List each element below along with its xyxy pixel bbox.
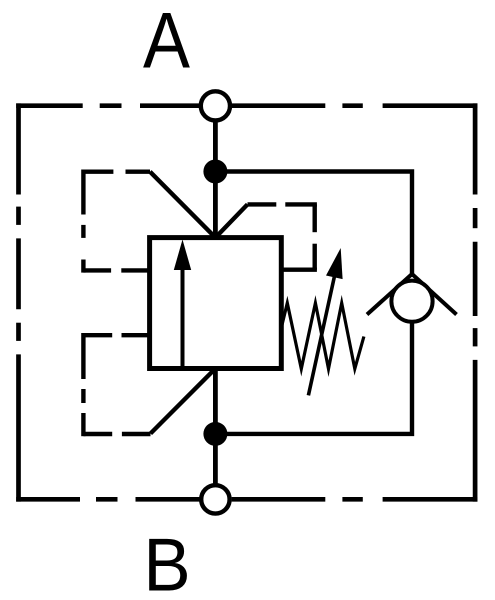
wire upper node to check valve inlet bbox=[215, 172, 412, 278]
port B bbox=[201, 485, 229, 513]
wire valve outlet to port B bbox=[213, 367, 218, 485]
flow arrow in valve body bbox=[174, 240, 191, 368]
port A bbox=[201, 91, 230, 120]
junction node lower bbox=[203, 422, 227, 446]
enclosure boundary top edge bbox=[16, 103, 477, 108]
pilot box lower left bbox=[83, 333, 150, 436]
spring (adjustable) bbox=[282, 303, 364, 369]
pilot diagonal upper right bbox=[215, 204, 247, 237]
enclosure boundary left edge bbox=[16, 103, 21, 501]
pilot diagonal upper left bbox=[150, 172, 215, 238]
spring adjustment arrow bbox=[308, 248, 342, 395]
pilot box upper right bbox=[248, 204, 317, 269]
junction node upper bbox=[203, 160, 227, 184]
check valve CV1 bbox=[367, 274, 457, 322]
port label B bbox=[143, 523, 190, 600]
pilot box upper left bbox=[83, 170, 150, 273]
port label A bbox=[143, 0, 190, 84]
relief valve body V1 bbox=[150, 238, 282, 369]
svg-text:A: A bbox=[143, 0, 190, 84]
pilot diagonal lower bbox=[151, 369, 216, 434]
svg-text:B: B bbox=[143, 523, 190, 600]
enclosure boundary right edge bbox=[473, 103, 478, 501]
wire check valve outlet to lower node bbox=[215, 320, 412, 434]
wire port A to valve inlet bbox=[213, 120, 218, 239]
enclosure boundary bottom edge bbox=[16, 497, 477, 502]
